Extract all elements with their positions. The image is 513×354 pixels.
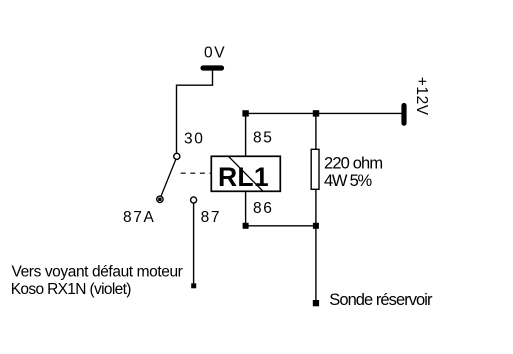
svg-text:220 ohm: 220 ohm [324, 155, 382, 173]
wire 87 to indicator output [193, 203, 195, 283]
wire relay pin 85 to +12V rail [245, 113, 247, 156]
resistor R1 body 220 ohm [311, 149, 319, 189]
relay RL1 coil box [211, 156, 280, 191]
annotation Vers voyant defaut moteur [12, 264, 183, 281]
pin label 85 [253, 129, 273, 146]
wire relay pin 86 down [245, 191, 247, 226]
pin label 87 [201, 209, 221, 226]
+12V supply terminal bar [401, 106, 406, 124]
svg-text:Vers voyant défaut moteur: Vers voyant défaut moteur [12, 264, 183, 281]
svg-text:RL1: RL1 [218, 162, 269, 192]
switch blade (pole) [161, 160, 176, 197]
wire +12V top rail [246, 112, 402, 114]
open end terminal to sonde [313, 300, 319, 306]
open end terminal to voyant [191, 283, 196, 288]
svg-text:86: 86 [253, 200, 273, 217]
junction at pin 86 drop [243, 223, 249, 229]
pin label 87A [123, 209, 155, 226]
svg-text:87: 87 [201, 209, 221, 226]
wire from 0V bar to switch terminal 30 [177, 70, 213, 153]
value label 4W 5% [324, 172, 373, 190]
svg-text:Sonde réservoir: Sonde réservoir [329, 291, 433, 309]
annotation Koso RX1N (violet) [11, 281, 132, 298]
svg-text:0V: 0V [204, 45, 226, 62]
switch common terminal 87A contact [157, 196, 163, 202]
pin label 86 [253, 200, 273, 217]
wire resistor bottom to lower rail [315, 190, 317, 226]
switch terminal 87 contact [191, 197, 197, 203]
net label +12V [413, 77, 430, 116]
wire lower rail pin86 to resistor leg [246, 225, 316, 227]
svg-text:Koso RX1N (violet): Koso RX1N (violet) [11, 281, 132, 298]
relay RL1 diagonal stroke [229, 157, 263, 192]
svg-text:+12V: +12V [413, 77, 430, 116]
switch SW1 terminal 30 contact [174, 153, 180, 159]
annotation Sonde reservoir [329, 291, 433, 309]
value label 220 ohm [324, 155, 382, 173]
junction at resistor top [313, 110, 319, 116]
node 0V label [204, 45, 226, 62]
junction at resistor bottom [313, 223, 319, 229]
ground 0V terminal bar [203, 65, 222, 70]
svg-text:87A: 87A [123, 209, 155, 226]
wire junction to resistor R1 top [315, 113, 317, 148]
svg-text:4W 5%: 4W 5% [324, 172, 373, 190]
junction at pin 85 riser [242, 110, 248, 116]
pin label 30 [184, 130, 204, 147]
svg-text:85: 85 [253, 129, 273, 146]
svg-text:30: 30 [184, 130, 204, 147]
wire lower rail to sonde [315, 226, 317, 301]
dashed actuator link from switch to relay coil [181, 172, 211, 174]
relay designator RL1 [218, 162, 269, 192]
